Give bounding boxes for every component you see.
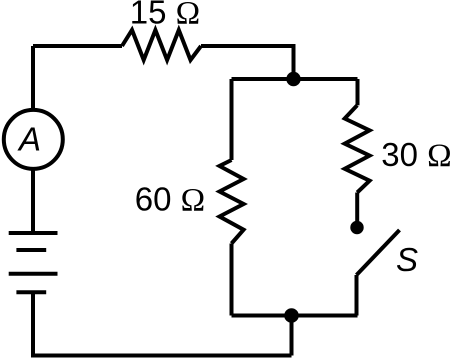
svg-text:A: A [17, 121, 41, 158]
battery BT1 plate long [9, 272, 58, 276]
wire [290, 316, 294, 356]
svg-text:60 Ω: 60 Ω [135, 181, 205, 219]
battery BT1 plate long [9, 231, 58, 235]
wire [355, 275, 359, 316]
wire [33, 292, 292, 355]
battery BT1 plate short [16, 290, 46, 294]
node junction dot top [286, 72, 300, 86]
svg-text:15 Ω: 15 Ω [130, 0, 200, 32]
resistor R3 [345, 105, 370, 192]
battery BT1 plate short [16, 248, 46, 252]
wire [31, 170, 35, 233]
wire [232, 77, 358, 81]
wire [201, 46, 294, 79]
node junction dot bottom [284, 308, 299, 323]
svg-text:30 Ω: 30 Ω [381, 136, 450, 174]
wire [355, 193, 359, 222]
wire [31, 46, 35, 109]
resistor R1 [122, 30, 201, 60]
svg-text:S: S [396, 241, 418, 278]
wire [230, 79, 234, 160]
wire [33, 44, 122, 48]
switch S blade [357, 230, 400, 275]
resistor R2 [220, 160, 244, 244]
switch S contact dot [350, 221, 363, 234]
wire [356, 79, 360, 105]
ammeter U1 [4, 110, 63, 169]
wire [230, 244, 234, 316]
wire [232, 314, 358, 318]
